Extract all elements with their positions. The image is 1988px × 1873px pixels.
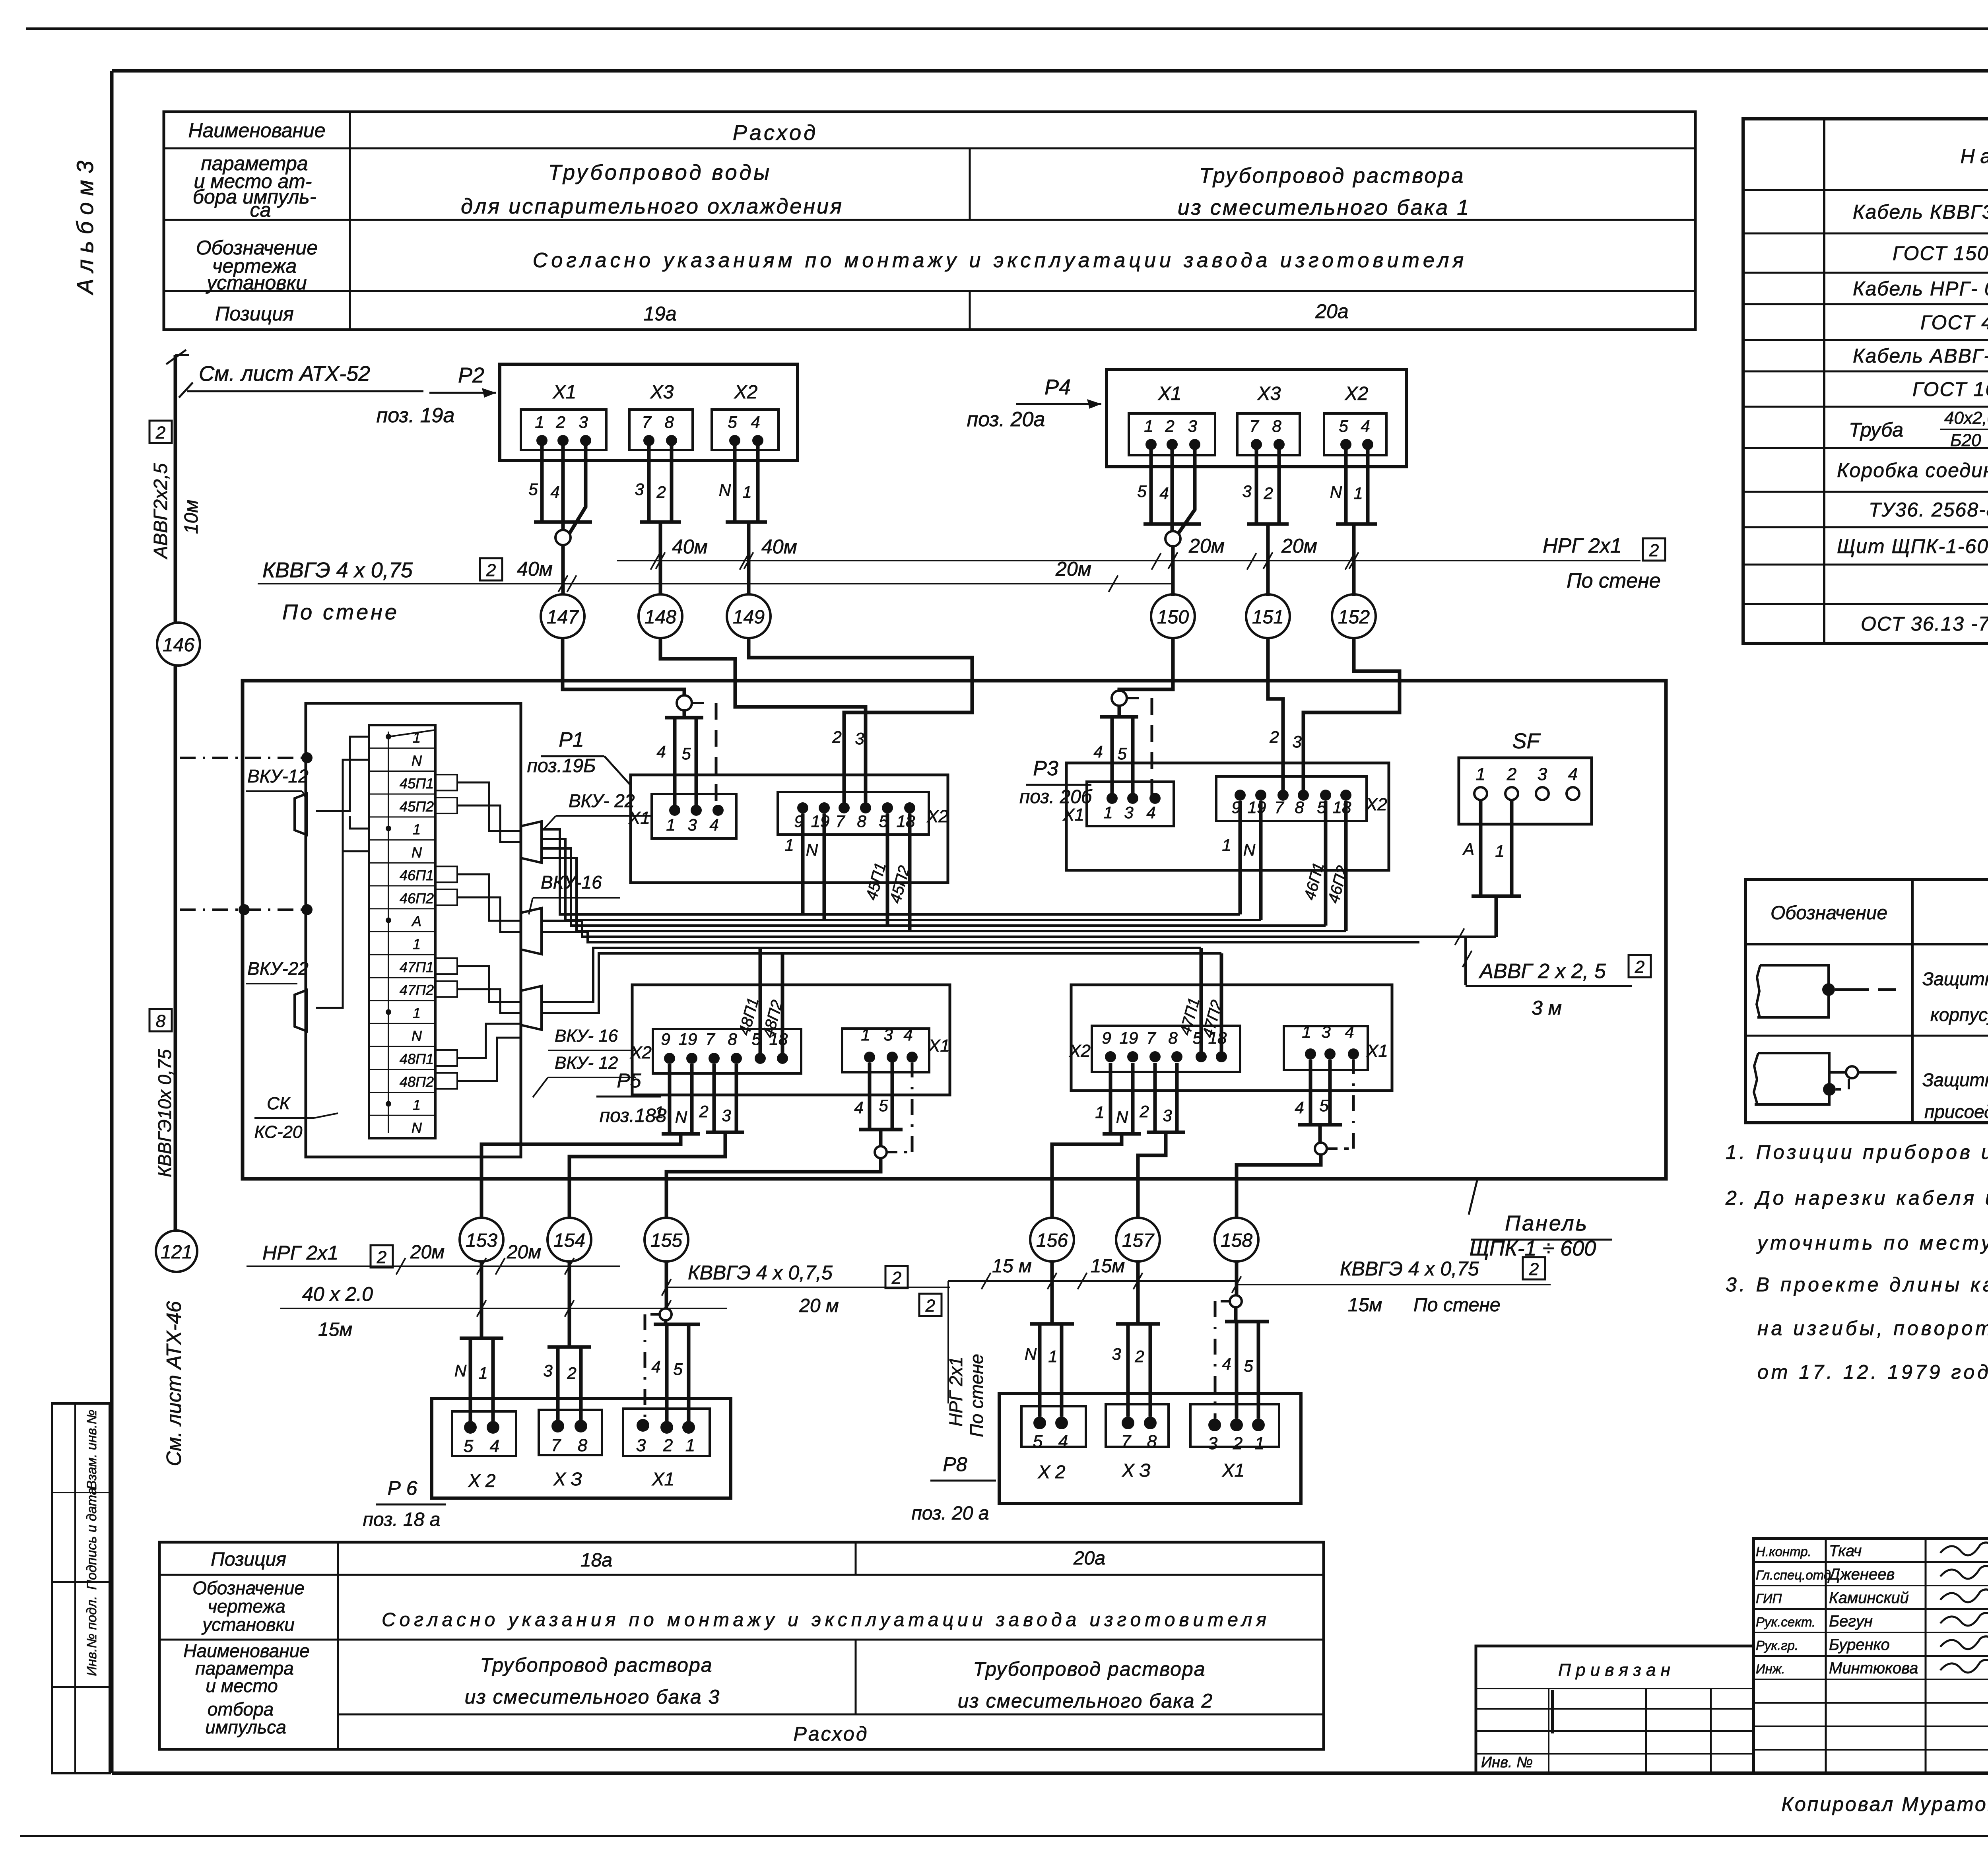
svg-text:По стене: По стене (1567, 569, 1661, 592)
svg-text:19а: 19а (643, 303, 676, 325)
svg-text:121: 121 (161, 1242, 192, 1263)
svg-text:8: 8 (857, 812, 866, 831)
T1 mid divider row2 (969, 148, 971, 220)
svg-text:Кабель КВВГЭ 4 х 0,75: Кабель КВВГЭ 4 х 0,75 (1853, 201, 1988, 223)
terminal row 47П2 (369, 1000, 435, 1001)
svg-text:1: 1 (535, 413, 544, 431)
svg-text:Х1: Х1 (1158, 383, 1182, 404)
svg-text:148: 148 (645, 607, 676, 628)
bundle wire 8 (542, 953, 1221, 1013)
svg-text:СК: СК (267, 1094, 291, 1113)
P4.X3 pin8 wire (1277, 444, 1281, 524)
svg-text:3: 3 (635, 480, 644, 499)
svg-text:9: 9 (661, 1030, 670, 1048)
P4.X1 pin3 wire (1178, 444, 1195, 534)
svg-text:Каминский: Каминский (1829, 1589, 1909, 1607)
node above P3.X1 (1112, 691, 1127, 706)
svg-text:2: 2 (377, 1248, 386, 1267)
title block signature columns (1825, 1539, 1827, 1773)
flow element circle 152 (1332, 594, 1376, 638)
svg-text:146: 146 (163, 635, 194, 656)
svg-text:2. До нарезки кабеля и труб: 2. До нарезки кабеля и труб длины кабель… (1725, 1187, 1988, 1209)
connector block P5.X1 (842, 1029, 929, 1072)
wire 156 to P8.X2 (1050, 1262, 1054, 1324)
P5.X2 pins 5 18 wires up to bundle (759, 948, 762, 1058)
svg-text:Х2: Х2 (630, 1043, 652, 1062)
svg-text:1: 1 (413, 821, 421, 838)
P7.X2 pins 7 8 wires down (1153, 1063, 1157, 1132)
wire P7 to 157 (1138, 1132, 1166, 1217)
P5.X1 dash-dot to pin 4 (887, 1151, 907, 1153)
svg-text:20м: 20м (1281, 535, 1317, 557)
cable run КВВГЭ 4х0,75 line (258, 583, 1173, 584)
svg-text:КВВГЭ10х 0,75: КВВГЭ10х 0,75 (154, 1049, 175, 1177)
svg-text:НРГ 2х1: НРГ 2х1 (945, 1357, 966, 1427)
svg-text:7: 7 (1146, 1029, 1156, 1047)
svg-text:47П2: 47П2 (400, 982, 434, 998)
svg-text:4: 4 (709, 815, 718, 834)
P1.X1 bus bar (683, 710, 686, 718)
svg-text:2: 2 (1529, 1260, 1539, 1279)
svg-text:N: N (1243, 840, 1256, 859)
svg-text:ГИП: ГИП (1756, 1591, 1782, 1606)
connector P2 body (500, 364, 798, 460)
left riser wire (174, 355, 177, 623)
svg-text:поз. 20б: поз. 20б (1019, 786, 1093, 807)
svg-text:156: 156 (1036, 1230, 1068, 1251)
unit P1 body (631, 775, 948, 883)
terminal strip internal bus (388, 732, 389, 1133)
svg-text:Р2: Р2 (458, 363, 484, 387)
flow element circle 158 (1215, 1218, 1258, 1262)
svg-text:По стене: По стене (1413, 1295, 1501, 1316)
svg-text:Панель: Панель (1505, 1211, 1588, 1235)
svg-text:корпусу электрооборудова: корпусу электрооборудования (1930, 1004, 1988, 1025)
svg-text:4: 4 (1093, 742, 1103, 761)
svg-text:2: 2 (1165, 417, 1174, 435)
svg-text:7: 7 (642, 413, 652, 431)
svg-text:ГОСТ 1508-78: ГОСТ 1508-78 (1893, 242, 1988, 264)
svg-text:5: 5 (728, 413, 737, 431)
svg-text:и место: и место (206, 1675, 278, 1696)
P6.X2 pins (464, 1421, 477, 1434)
P7.X1 bar (1298, 1123, 1342, 1127)
svg-text:1: 1 (1495, 842, 1504, 860)
T4 row lines (159, 1574, 1324, 1576)
P1.X1 dashed wire to pin 4 (692, 702, 712, 704)
svg-text:N: N (1330, 483, 1342, 501)
svg-text:Расход: Расход (794, 1723, 869, 1745)
svg-text:из смесительного бака 1: из смесительного бака 1 (1178, 196, 1470, 219)
svg-text:SF: SF (1512, 729, 1541, 753)
P5.X1 bar (859, 1128, 903, 1132)
title block signature rows (1753, 1561, 1988, 1563)
svg-text:Защитный проводник, присоедин: Защитный проводник, присоединяемый к (1922, 969, 1988, 989)
flow element circle 148 (639, 594, 682, 638)
svg-text:1: 1 (413, 936, 421, 952)
svg-text:4: 4 (1295, 1098, 1304, 1117)
svg-text:2: 2 (1269, 728, 1279, 746)
terminal row 48П1 (369, 1069, 435, 1070)
svg-text:Копировал Муратова: Копировал Муратова (1781, 1793, 1988, 1815)
svg-text:ВКУ-12: ВКУ-12 (247, 766, 309, 786)
svg-text:Х1: Х1 (553, 382, 577, 403)
P7.X2 bar 9 19 (1103, 1132, 1141, 1136)
connector block P7.X1 (1284, 1026, 1368, 1070)
P4.X1 pin1 wire (1149, 444, 1153, 524)
svg-text:7: 7 (551, 1436, 561, 1455)
svg-text:40 х 2.0: 40 х 2.0 (302, 1283, 373, 1305)
P2.X1 pin2 wire (561, 441, 565, 522)
terminal row N (369, 862, 435, 864)
svg-text:1: 1 (1476, 765, 1485, 784)
svg-text:1: 1 (413, 1097, 421, 1113)
svg-text:N: N (454, 1361, 467, 1380)
P4.X1 pin2 wire (1171, 444, 1174, 524)
svg-text:3: 3 (1208, 1434, 1218, 1453)
svg-text:См. лист АТХ-52: См. лист АТХ-52 (199, 362, 370, 386)
terminal row N (369, 1138, 435, 1139)
svg-text:Труба: Труба (1849, 419, 1903, 441)
terminal shoe row 48П2 (435, 1073, 457, 1089)
svg-text:Р5: Р5 (617, 1069, 641, 1092)
svg-text:2: 2 (1233, 1434, 1242, 1453)
wire bar to 148 (659, 522, 662, 594)
svg-text:40м: 40м (761, 536, 797, 558)
P4.X3 pin7 wire (1255, 444, 1258, 524)
панель label leader (1469, 1179, 1477, 1215)
svg-text:4: 4 (656, 742, 666, 761)
P3.X1 bus bar (1118, 706, 1121, 717)
terminal shoe row 46П1 (435, 866, 457, 882)
svg-text:поз. 18 а: поз. 18 а (363, 1509, 441, 1530)
svg-text:4: 4 (1345, 1023, 1354, 1041)
wire 148 to P1.X2 pin8 (660, 638, 866, 808)
flow element circle 153 (460, 1218, 503, 1262)
T4 col lines (337, 1542, 339, 1749)
P6.X3 box (539, 1410, 602, 1455)
привязан box (1476, 1646, 1753, 1773)
svg-text:19: 19 (1120, 1029, 1138, 1047)
svg-text:Рук.сект.: Рук.сект. (1756, 1615, 1815, 1629)
SF bus bar (1472, 895, 1521, 898)
P1.X1 bar wires to pins 1 3 (673, 718, 677, 808)
svg-text:Х2: Х2 (1069, 1041, 1091, 1061)
svg-text:Кабель НРГ- 0,66 2х: Кабель НРГ- 0,66 2х1 (1853, 278, 1988, 300)
привязан signature mark (1551, 1690, 1554, 1733)
P2.X3 pin7 wire (647, 441, 651, 522)
svg-text:2: 2 (155, 423, 165, 443)
svg-text:Взам. инв.№: Взам. инв.№ (84, 1410, 99, 1490)
terminal row 1 (369, 839, 435, 840)
wire 150 to node (1119, 638, 1173, 691)
svg-text:поз.19Б: поз.19Б (527, 755, 596, 776)
svg-text:Трубопровод раствора: Трубопровод раствора (973, 1658, 1206, 1680)
wire 149 to P1.X2 pin7 (749, 638, 972, 808)
connector block P2.X3 (629, 410, 693, 450)
P6.X2 box (452, 1411, 516, 1456)
svg-text:1: 1 (654, 1103, 664, 1122)
cable gland right 3 (521, 986, 542, 1030)
svg-text:1: 1 (1302, 1023, 1311, 1041)
P7.X2 bar 7 8 (1147, 1131, 1185, 1134)
svg-text:Обозначение: Обозначение (192, 1578, 305, 1598)
svg-text:ВКУ- 12: ВКУ- 12 (555, 1053, 618, 1073)
table T4 outer (159, 1542, 1324, 1749)
svg-text:46П2: 46П2 (400, 890, 434, 906)
svg-text:ГОСТ 16 442-80: ГОСТ 16 442-80 (1912, 378, 1988, 400)
svg-text:8: 8 (664, 413, 674, 431)
wire bar to 152 (1352, 524, 1356, 596)
svg-text:2: 2 (486, 561, 496, 580)
svg-text:3: 3 (883, 1025, 893, 1044)
svg-text:3: 3 (722, 1106, 731, 1125)
cable gland left 1 (295, 794, 307, 835)
svg-text:Р3: Р3 (1033, 757, 1058, 780)
svg-text:1: 1 (742, 483, 751, 501)
SF branch to АВВГ label (1464, 937, 1467, 985)
svg-text:3: 3 (1163, 1106, 1172, 1125)
svg-text:КВВГЭ 4 х 0,7,5: КВВГЭ 4 х 0,7,5 (688, 1262, 833, 1284)
flow element circle 155 (645, 1218, 688, 1262)
svg-text:ВКУ-22: ВКУ-22 (247, 958, 309, 979)
svg-text:8: 8 (156, 1011, 166, 1031)
svg-text:40м: 40м (517, 558, 553, 580)
svg-text:3: 3 (579, 413, 588, 431)
P4.X2 pin4 wire (1366, 444, 1370, 524)
svg-text:2: 2 (1507, 765, 1516, 784)
svg-text:152: 152 (1338, 607, 1370, 628)
slash marks on П4 drops (1168, 552, 1177, 569)
P5.X2 bar 7 8 (706, 1131, 744, 1134)
T1 left column divider (349, 112, 351, 330)
svg-text:1: 1 (1103, 803, 1112, 822)
connector P8 body (999, 1394, 1301, 1504)
cable marker circle 146 (157, 623, 200, 666)
wire P7 node to 158 (1237, 1155, 1321, 1217)
wires strip to left glands (316, 737, 369, 811)
svg-text:2: 2 (832, 728, 841, 746)
svg-text:N: N (806, 840, 818, 859)
svg-text:1: 1 (413, 1005, 421, 1021)
svg-text:Трубопровод раствора: Трубопровод раствора (480, 1654, 712, 1676)
page top rule (26, 27, 1988, 30)
terminal row 1 (369, 1023, 435, 1024)
connector block P3.X1 (1087, 782, 1174, 826)
wire P5 to 153 (481, 1134, 681, 1217)
svg-text:АВВГ 2 х 2, 5: АВВГ 2 х 2, 5 (1478, 960, 1606, 983)
terminal shoe row 47П1 (435, 958, 457, 974)
wires strip to gland 2 (457, 874, 521, 921)
svg-text:151: 151 (1252, 607, 1284, 628)
svg-text:Согласно указания по монта: Согласно указания по монтажу и эксплуата… (382, 1609, 1270, 1630)
svg-text:3: 3 (687, 815, 697, 834)
ref box 8 left (149, 1009, 172, 1031)
P2.X2 pin5 wire (733, 441, 737, 522)
svg-text:3: 3 (1538, 765, 1547, 784)
svg-text:КВВГЭ 4 х 0,75: КВВГЭ 4 х 0,75 (1340, 1258, 1479, 1280)
svg-text:2: 2 (663, 1436, 673, 1455)
svg-text:20м: 20м (507, 1242, 541, 1263)
svg-text:Б20: Б20 (1950, 431, 1981, 450)
svg-text:40м: 40м (672, 536, 708, 558)
flow element circle 147 (541, 594, 584, 638)
svg-text:18: 18 (1333, 798, 1351, 817)
unit P7 body (1071, 985, 1392, 1091)
svg-text:Щит ЩПК-1-600 УХЛ4 I Р30: Щит ЩПК-1-600 УХЛ4 I Р30 (1837, 535, 1988, 557)
cable run 15м 15м (948, 1280, 1235, 1282)
svg-text:47П1: 47П1 (400, 959, 434, 975)
flow element circle 150 (1151, 594, 1195, 638)
svg-text:са: са (250, 199, 271, 221)
terminal row 47П1 (369, 977, 435, 978)
terminal strip top jumper (388, 730, 435, 737)
svg-text:3: 3 (543, 1361, 552, 1380)
svg-text:Коробка соединительная КС-2: Коробка соединительная КС-20 (1837, 459, 1988, 481)
svg-text:Согласно указаниям по мон: Согласно указаниям по монтажу и эксплуат… (533, 249, 1467, 272)
T1 mid divider row4 (969, 291, 971, 330)
svg-text:N: N (1025, 1345, 1037, 1363)
svg-text:поз. 19а: поз. 19а (377, 404, 455, 427)
svg-text:на изгибы, повороты и отхо: на изгибы, повороты и отходы согласно пи… (1757, 1317, 1988, 1339)
svg-text:поз. 20 а: поз. 20 а (912, 1503, 989, 1524)
terminal row 1 (369, 1115, 435, 1116)
svg-text:Х1: Х1 (628, 808, 650, 828)
svg-text:3: 3 (1124, 803, 1133, 822)
P8.X1 bar and wires (1234, 1307, 1238, 1322)
node below P5.X1 (879, 1130, 883, 1147)
svg-text:1: 1 (1222, 836, 1231, 854)
left riser top tick (166, 350, 186, 364)
svg-text:2: 2 (1134, 1347, 1144, 1366)
svg-text:7: 7 (705, 1030, 715, 1048)
flow element circle 156 (1030, 1218, 1074, 1262)
svg-text:Расход: Расход (733, 121, 818, 145)
P2.X1 bus bar (534, 520, 592, 524)
cable run 40х2.0 bottom (280, 1308, 727, 1309)
node above 147 (561, 522, 565, 530)
svg-text:1: 1 (1255, 1434, 1264, 1453)
svg-text:158: 158 (1221, 1230, 1252, 1251)
terminal row 1 (369, 747, 435, 749)
svg-text:20а: 20а (1315, 300, 1348, 322)
wire node to 150 (1171, 546, 1175, 596)
legend symbol 2 PE dot and hook (1823, 1083, 1836, 1096)
svg-text:15м: 15м (1348, 1295, 1382, 1316)
wires strip to gland 3 (457, 966, 521, 1002)
svg-text:4: 4 (1361, 417, 1370, 435)
svg-text:N: N (412, 844, 422, 860)
svg-text:из смесительного бака 2: из смесительного бака 2 (958, 1690, 1213, 1712)
svg-text:8: 8 (1295, 798, 1304, 817)
connector block P3.X2 (1216, 776, 1367, 821)
svg-text:19: 19 (811, 812, 830, 831)
connector block P2.X2 (712, 410, 779, 450)
connector P6 body (432, 1398, 731, 1498)
svg-text:4: 4 (854, 1098, 863, 1117)
bundle wire 4 (542, 858, 1346, 931)
dash-dot link upper (301, 752, 313, 763)
P6.X1 bar and wires (664, 1320, 668, 1324)
connector block P4.X3 (1237, 413, 1300, 455)
bundle wire 1 (542, 829, 1240, 914)
svg-text:20а: 20а (1073, 1548, 1105, 1569)
svg-text:5: 5 (1244, 1357, 1253, 1375)
привязан columns (1548, 1689, 1549, 1773)
svg-text:4: 4 (1058, 1432, 1068, 1451)
cable run КВВГЭ 20м (665, 1287, 950, 1288)
svg-text:Позиция: Позиция (211, 1549, 286, 1570)
wire 153 to P6.X2 (480, 1262, 483, 1338)
node above 150 (1171, 524, 1174, 532)
svg-text:КВВГЭ 4 х 0,75: КВВГЭ 4 х 0,75 (262, 558, 413, 582)
terminal strip (369, 725, 435, 1138)
table T2 outer (1743, 119, 1988, 643)
P6.X1 box (623, 1409, 710, 1456)
svg-text:Подпись и дата: Подпись и дата (84, 1487, 99, 1590)
node below P7.X1 (1318, 1125, 1322, 1143)
wire 158 to P8.X1 node (1235, 1262, 1239, 1296)
terminal shoe row 45П2 (435, 798, 457, 813)
P2.X3 pin8 wire (670, 441, 674, 522)
svg-text:3: 3 (1112, 1345, 1121, 1363)
P2.X1 pin1 wire (540, 441, 544, 522)
wire bar to 151 (1266, 524, 1270, 596)
svg-text:19: 19 (679, 1030, 697, 1048)
wire 155 to P6.X1 node (665, 1262, 668, 1309)
P3.X2 pins 5 18 wires down to bundle (1324, 801, 1328, 926)
svg-text:3: 3 (1242, 482, 1251, 501)
P7.X2 pins 9 19 wires down (1109, 1063, 1112, 1134)
terminal row 46П1 (369, 885, 435, 887)
svg-text:147: 147 (547, 607, 579, 628)
terminal row N (369, 771, 435, 772)
svg-text:ВКУ- 22: ВКУ- 22 (569, 790, 635, 811)
svg-text:Кабель АВВГ- 0,66 2х: Кабель АВВГ- 0,66 2х2,5 (1853, 345, 1988, 367)
svg-text:2: 2 (699, 1102, 708, 1121)
svg-text:Бегун: Бегун (1829, 1613, 1873, 1630)
svg-text:Р 6: Р 6 (387, 1477, 417, 1499)
svg-text:3: 3 (1321, 1023, 1330, 1041)
svg-text:Наименование: Наименование (188, 119, 325, 142)
svg-text:5: 5 (1319, 1096, 1329, 1115)
terminal shoe row 45П1 (435, 774, 457, 790)
P4.X3 bus bar (1247, 522, 1289, 526)
cable run КВВГЭ 15м right (1235, 1284, 1551, 1285)
svg-text:4: 4 (550, 483, 559, 501)
terminal row 45П1 (369, 794, 435, 795)
left margin cells table (52, 1403, 110, 1773)
wires strip to gland 3b (457, 1024, 521, 1058)
svg-text:3 м: 3 м (1532, 997, 1562, 1019)
svg-text:4: 4 (903, 1025, 912, 1044)
terminal row 45П2 (369, 816, 435, 817)
legend symbol 1 dash wire (1835, 988, 1869, 991)
P4.X2 bus bar (1336, 522, 1377, 526)
svg-text:Х1: Х1 (928, 1036, 950, 1056)
svg-text:Р1: Р1 (559, 728, 584, 751)
svg-text:Х З: Х З (553, 1469, 582, 1489)
svg-text:5: 5 (464, 1436, 474, 1456)
T2 row lines (1743, 189, 1988, 191)
svg-text:1: 1 (478, 1364, 487, 1382)
svg-text:Х1: Х1 (1366, 1041, 1388, 1061)
svg-text:2: 2 (1263, 484, 1273, 503)
svg-text:N: N (719, 481, 731, 499)
svg-text:40х2,0: 40х2,0 (1944, 408, 1988, 428)
svg-text:8: 8 (1147, 1432, 1157, 1451)
svg-text:1: 1 (784, 836, 794, 854)
